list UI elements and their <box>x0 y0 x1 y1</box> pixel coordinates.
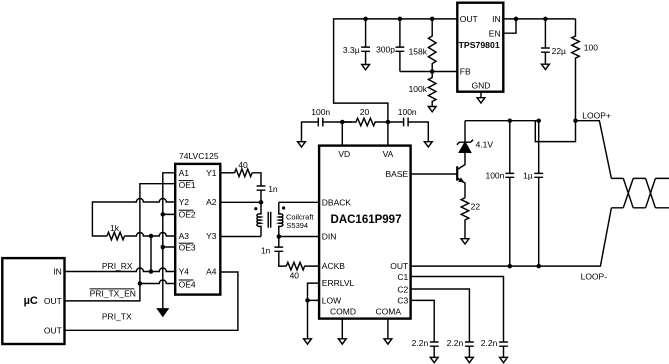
capacitor 100n (VD) <box>318 118 323 127</box>
svg-text:VD: VD <box>338 149 350 159</box>
ground under 22 <box>461 239 469 244</box>
svg-text:C1: C1 <box>397 272 408 282</box>
ground left of VD rail <box>298 142 306 147</box>
svg-text:BASE: BASE <box>386 169 409 179</box>
svg-text:1µ: 1µ <box>523 170 533 180</box>
svg-text:2.2n: 2.2n <box>447 338 464 348</box>
IC U3 TPS79801 (LDO regulator) box <box>457 3 503 92</box>
svg-text:TPS79801: TPS79801 <box>459 40 500 50</box>
svg-text:µC: µC <box>24 295 38 307</box>
svg-text:Y2: Y2 <box>179 197 190 207</box>
wire C1 to 2.2n <box>411 277 504 343</box>
junction dots LDO rail <box>363 17 368 22</box>
svg-text:OUT: OUT <box>460 14 478 24</box>
label right side values <box>412 110 611 347</box>
svg-text:Y4: Y4 <box>179 266 190 276</box>
svg-text:PRI_RX: PRI_RX <box>102 261 133 271</box>
wire FB line <box>400 71 457 73</box>
wire C2 to 2.2n <box>411 289 470 342</box>
svg-text:OUT: OUT <box>44 325 62 335</box>
svg-text:S5394: S5394 <box>286 221 308 230</box>
wire A2 line <box>220 201 261 203</box>
wire secondary top to DBACK <box>279 201 319 203</box>
wire twisted pair <box>611 178 669 207</box>
svg-text:ERRLVL: ERRLVL <box>322 278 355 288</box>
label 74LVC125 pins <box>179 151 219 290</box>
wire node A3-Y4 vertical <box>150 236 152 272</box>
wire EN to IN <box>503 19 516 33</box>
wire LOW to ground <box>308 300 320 338</box>
ground under LOW <box>304 339 312 344</box>
wire VA to right 100n <box>388 122 428 142</box>
transformer core <box>268 212 271 228</box>
svg-text:40: 40 <box>238 160 248 170</box>
wire BASE to transistor <box>411 173 458 175</box>
wire A1 to enable-bus <box>163 173 175 215</box>
svg-text:A4: A4 <box>206 266 217 276</box>
capacitor 1n (lower) <box>274 237 286 267</box>
transformer secondary winding <box>279 202 283 236</box>
ground under COMA <box>384 339 392 344</box>
svg-text:C2: C2 <box>397 285 408 295</box>
junction dot FB <box>430 69 435 74</box>
ground right of VA rail <box>424 142 432 147</box>
ground under 22u <box>542 64 550 69</box>
svg-text:A3: A3 <box>179 231 190 241</box>
svg-text:DAC161P997: DAC161P997 <box>331 214 402 226</box>
label values top <box>311 43 598 118</box>
IC U1 74LVC125 buffer box <box>175 164 220 295</box>
wire 1n to A2 node <box>260 190 262 202</box>
capacitor 2.2n (C3) <box>430 342 439 357</box>
svg-text:20: 20 <box>360 107 370 117</box>
resistor 22 <box>461 198 469 239</box>
label nets left <box>90 223 136 321</box>
svg-text:100n: 100n <box>398 107 417 117</box>
svg-text:2.2n: 2.2n <box>412 338 429 348</box>
svg-text:74LVC125: 74LVC125 <box>179 151 219 161</box>
ground under 3.3u <box>362 65 370 70</box>
IC U2 DAC161P997 box <box>319 146 411 319</box>
resistor 100 <box>572 19 580 121</box>
wire LDO OUT rail to VA <box>334 19 458 122</box>
ground under 100k <box>428 107 436 112</box>
svg-text:C3: C3 <box>397 295 408 305</box>
junction dot DIN node <box>277 234 282 239</box>
svg-text:IN: IN <box>53 267 62 277</box>
wire OUT line to LOOP- <box>411 208 612 266</box>
svg-text:GND: GND <box>472 81 491 91</box>
ground under 2.2n C2 <box>466 357 474 362</box>
svg-text:OUT: OUT <box>44 296 62 306</box>
wire VD-VA rail with left ground <box>302 122 353 142</box>
svg-text:LOOP-: LOOP- <box>581 272 608 282</box>
ground LDO GND pin <box>477 92 485 103</box>
wire COMD pin <box>341 319 343 339</box>
label TPS79801 pins <box>459 14 501 91</box>
svg-text:300p: 300p <box>376 44 395 54</box>
wire VD pin <box>341 122 343 146</box>
wire 1k to A3 <box>125 233 176 237</box>
svg-text:OUT: OUT <box>390 261 408 271</box>
transformer phase dot primary <box>254 207 257 210</box>
resistor 40 (ACKB) <box>286 262 319 270</box>
svg-text:OE2: OE2 <box>179 209 196 219</box>
svg-text:COMA: COMA <box>376 306 402 316</box>
capacitor 1n (upper) <box>257 186 266 190</box>
svg-text:100n: 100n <box>485 170 504 180</box>
junction dots VD VA <box>340 120 345 125</box>
transformer phase dot secondary <box>282 206 285 209</box>
wire Y2 to 1k <box>92 199 175 237</box>
svg-text:EN: EN <box>489 28 501 38</box>
wire PRI_TX_EN uC OUT to OE4/OE1 <box>65 184 176 301</box>
svg-text:DIN: DIN <box>322 232 337 242</box>
svg-text:DBACK: DBACK <box>322 197 352 207</box>
resistor 100k <box>428 72 436 107</box>
wire PRI_RX uC IN to Y4 and A3 tap <box>65 268 176 271</box>
svg-text:OE3: OE3 <box>179 242 196 252</box>
resistor 158k <box>428 19 436 72</box>
capacitor 2.2n (C2) <box>465 342 474 357</box>
wire COMA pin <box>387 319 389 339</box>
diode zener 4.1V <box>459 142 470 152</box>
capacitor 100n (loop) <box>505 121 514 266</box>
svg-text:IN: IN <box>492 14 501 24</box>
svg-text:1n: 1n <box>261 246 271 256</box>
wire LDO IN rail <box>503 18 575 20</box>
junction dots LOOP+ rail <box>508 118 513 123</box>
wire OE2 stub <box>163 214 175 247</box>
svg-text:22µ: 22µ <box>552 46 566 56</box>
resistor 20 <box>342 118 388 126</box>
svg-text:A1: A1 <box>179 168 190 178</box>
ground under 2.2n C1 <box>500 357 508 362</box>
transistor Q1 NPN <box>456 166 458 180</box>
capacitor 22u <box>541 19 550 64</box>
transistor emitter arrow <box>458 178 465 183</box>
wire Y1 to 40 <box>220 172 234 174</box>
wire zener to rail <box>464 121 466 143</box>
label transformer area values <box>238 160 314 280</box>
junction dot LOW <box>305 298 310 303</box>
svg-text:4.1V: 4.1V <box>476 139 494 149</box>
svg-text:1n: 1n <box>268 184 278 194</box>
svg-text:COMD: COMD <box>330 306 356 316</box>
svg-text:2.2n: 2.2n <box>481 338 498 348</box>
label DAC161P997 pins <box>322 149 409 316</box>
svg-text:FB: FB <box>460 67 471 77</box>
capacitor 300p <box>396 19 405 72</box>
resistor 40 (Y1) <box>235 169 252 177</box>
microcontroller U4 box <box>2 258 64 344</box>
wire PRI_TX uC OUT to A4 <box>65 272 238 330</box>
svg-text:100n: 100n <box>311 107 330 117</box>
label uC pins <box>24 267 62 336</box>
svg-text:A2: A2 <box>206 197 217 207</box>
junction dot A2 node <box>259 200 264 205</box>
svg-text:Y3: Y3 <box>206 231 217 241</box>
svg-text:Coilcraft: Coilcraft <box>286 212 314 221</box>
svg-text:Y1: Y1 <box>206 168 217 178</box>
svg-text:LOOP+: LOOP+ <box>582 110 611 120</box>
svg-text:100k: 100k <box>409 84 428 94</box>
svg-text:ACKB: ACKB <box>322 261 345 271</box>
resistor 1k <box>107 232 125 240</box>
wire C3 to 2.2n <box>411 300 435 342</box>
junction dots left bus <box>138 281 143 286</box>
capacitor 2.2n (C1) <box>499 342 508 357</box>
capacitor 1u <box>534 121 543 266</box>
svg-text:40: 40 <box>290 271 300 281</box>
svg-text:LOW: LOW <box>322 295 341 305</box>
svg-text:OE1: OE1 <box>179 180 196 190</box>
svg-text:3.3µ: 3.3µ <box>343 45 360 55</box>
svg-text:OE4: OE4 <box>179 280 196 290</box>
wire 40 to 1n top <box>252 173 261 186</box>
transformer T1 primary winding <box>257 202 261 236</box>
svg-text:100: 100 <box>584 43 598 53</box>
wire ERRLVL to LOW <box>308 283 320 300</box>
wire Y3 line <box>220 236 261 238</box>
svg-text:158k: 158k <box>409 47 428 57</box>
svg-text:PRI_TX: PRI_TX <box>102 312 132 322</box>
ground arrow (enable bus) <box>158 309 168 316</box>
wire VA pin <box>387 122 389 146</box>
svg-text:PRI_TX_EN: PRI_TX_EN <box>90 289 136 299</box>
ground under COMD <box>338 339 346 344</box>
junction dots OUT line <box>508 264 513 269</box>
wire secondary bottom to DIN <box>279 236 319 238</box>
wire LOOP+ rail <box>465 121 611 179</box>
svg-text:VA: VA <box>383 149 394 159</box>
capacitor 100n (VA) <box>404 118 409 127</box>
svg-text:1k: 1k <box>110 223 120 233</box>
svg-text:22: 22 <box>471 202 481 212</box>
wire OE3 stub <box>163 247 175 309</box>
capacitor 3.3u <box>361 19 370 65</box>
ground under 2.2n C3 <box>430 357 438 362</box>
